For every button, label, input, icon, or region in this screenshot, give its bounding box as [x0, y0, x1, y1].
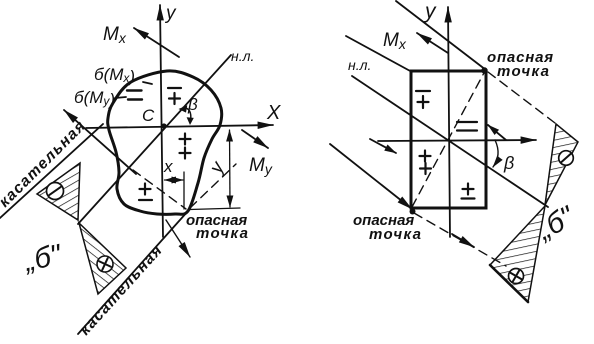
svg-text:My: My — [249, 155, 273, 177]
svg-text:„б": „б" — [21, 239, 66, 278]
node C center dot — [161, 123, 166, 128]
svg-text:Mx: Mx — [103, 24, 127, 46]
arrow on lower dashed — [452, 234, 474, 247]
svg-text:X: X — [266, 102, 281, 124]
svg-text:точка: точка — [196, 225, 249, 242]
section blob outline — [108, 71, 222, 214]
sign +- bottom blob — [139, 184, 152, 201]
sigma axis upper segment with arrow — [64, 110, 136, 174]
axis Y left — [160, 5, 163, 237]
minus circle right — [559, 151, 574, 166]
dashed rect diagonal — [412, 71, 485, 207]
dangerous point dot bottom-left — [410, 209, 416, 215]
svg-text:б(My): б(My) — [74, 88, 115, 109]
svg-text:н.л.: н.л. — [231, 48, 254, 64]
axis y right — [448, 7, 450, 237]
tangent line 1 left — [0, 124, 103, 218]
tangent to TL corner — [346, 36, 412, 72]
tangent to BL dot with arrow — [330, 144, 412, 209]
dimension y line — [229, 130, 232, 207]
sigma diagram right upper triangle — [545, 124, 578, 205]
small arrow near beta — [488, 125, 506, 140]
small arrow lower-left — [370, 139, 396, 153]
dimension y ref line — [190, 208, 240, 210]
tangent line 2 left — [78, 211, 188, 334]
plus circle right — [509, 269, 524, 284]
dashed from TR dot to sigma — [488, 72, 555, 123]
svg-text:б(Mx): б(Mx) — [94, 65, 135, 86]
axis X left — [86, 125, 273, 128]
svg-text:н.л.: н.л. — [348, 57, 371, 73]
plus circle left — [97, 256, 113, 272]
minus circle left — [47, 183, 64, 200]
dangerous point arrow below — [166, 220, 190, 257]
svg-text:Mx: Mx — [383, 30, 407, 52]
tick from sigma(My) — [115, 97, 126, 98]
angle beta arc left — [183, 108, 191, 122]
neutral line right — [352, 76, 548, 207]
svg-text:точка: точка — [497, 63, 550, 80]
dangerous point dot top-right — [481, 67, 487, 73]
moment Mx arrow right — [417, 33, 448, 53]
rectangle section — [411, 71, 486, 208]
svg-text:β: β — [187, 95, 198, 114]
sign ++ rect bottom-left — [420, 151, 432, 175]
svg-text:β: β — [503, 153, 514, 173]
svg-text:точка: точка — [369, 226, 422, 243]
svg-text:y: y — [164, 3, 177, 24]
sign ++ blob — [180, 134, 191, 159]
sigma diagram left upper triangle — [37, 163, 80, 220]
svg-text:x: x — [163, 157, 173, 176]
sign +- rect bottom-right — [462, 184, 475, 199]
sigma diagram right lower triangle — [490, 206, 545, 302]
sign -+ rect top-left — [416, 91, 430, 108]
svg-text:y: y — [423, 0, 437, 23]
dashed from BL dot to sigma — [414, 213, 506, 266]
dashed line from dangerous point up-right — [190, 164, 236, 208]
angle beta arc right — [493, 140, 498, 167]
axis x right — [378, 140, 536, 141]
dimension x tick — [183, 172, 185, 209]
moment Mx arrow left — [134, 28, 179, 57]
sign -+ top center blob — [168, 88, 181, 104]
tangent through TR dot — [396, 1, 486, 70]
svg-text:C: C — [142, 106, 155, 125]
svg-text:y: y — [205, 157, 230, 178]
dashed line inside blob — [133, 170, 186, 209]
sigma diagram left lower triangle — [79, 223, 126, 294]
neutral line n.l. left — [78, 55, 231, 224]
sign == inside blob left — [127, 91, 142, 100]
tick from sigma(Mx) to blob — [143, 82, 152, 84]
dimension x line — [165, 179, 184, 181]
moment My arrow left — [242, 130, 268, 148]
sign == rect right — [457, 122, 477, 131]
